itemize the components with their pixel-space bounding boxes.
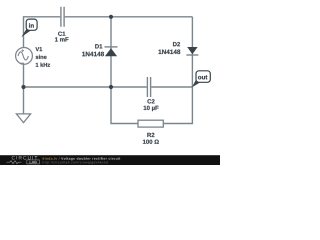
footer logo CIRCUIT — [12, 156, 38, 160]
footer text line 2 — [43, 161, 108, 164]
label C2 value 10 uF — [144, 106, 159, 111]
capacitor C1 — [61, 7, 64, 27]
diode D1 — [105, 47, 118, 56]
wire: middle rail right of C2 — [151, 86, 192, 88]
node junction: ground rail / D1 / R2 loop — [109, 85, 113, 89]
node out flag pointer — [192, 79, 201, 87]
label C1 value 1 mF — [55, 37, 68, 41]
node in flag box — [26, 19, 37, 30]
wire: bottom loop left (to R2) — [111, 87, 138, 124]
label C1 designator — [58, 32, 65, 36]
footer logo LAB box — [27, 160, 40, 164]
label C2 designator — [147, 99, 154, 103]
wire: D1 branch vertical — [110, 17, 112, 87]
label D2 part 1N4148 — [158, 50, 180, 55]
wire: top rail left segment (input corner to C1) — [24, 17, 61, 48]
label V1 value 1 kHz — [36, 63, 50, 67]
label D1 designator — [95, 44, 102, 48]
node in flag pointer — [21, 29, 30, 37]
node out label text — [198, 75, 207, 79]
label D2 designator — [173, 42, 180, 46]
ground — [16, 114, 30, 123]
label D1 part 1N4148 — [82, 52, 104, 57]
node out flag box — [196, 71, 210, 83]
diode D2 — [186, 47, 198, 55]
wire: top rail right segment (C1 to top-right corner) — [65, 16, 193, 18]
wire: D2 branch vertical — [191, 17, 193, 87]
label V1 type sine — [36, 55, 47, 59]
label R2 designator — [147, 133, 154, 137]
footer logo zigzag — [7, 161, 22, 164]
wire: ground stub — [23, 87, 25, 114]
node in label text — [29, 23, 34, 27]
node junction: V1 / ground rail — [21, 85, 25, 89]
label R2 value 100 Ohm — [143, 140, 159, 144]
footer logo LAB text — [30, 161, 37, 163]
voltage source V1 — [16, 48, 33, 65]
wire: V1 bottom lead — [23, 64, 25, 87]
capacitor C2 — [147, 77, 150, 97]
resistor R2 — [138, 120, 163, 127]
label V1 designator — [35, 47, 42, 51]
footer text line 1 — [43, 157, 60, 160]
footer bar — [0, 155, 220, 165]
wire: middle rail left of C2 — [24, 86, 147, 88]
node junction: top rail / D1 branch — [109, 15, 113, 19]
wire: bottom loop right (R2 to out node) — [163, 87, 192, 124]
